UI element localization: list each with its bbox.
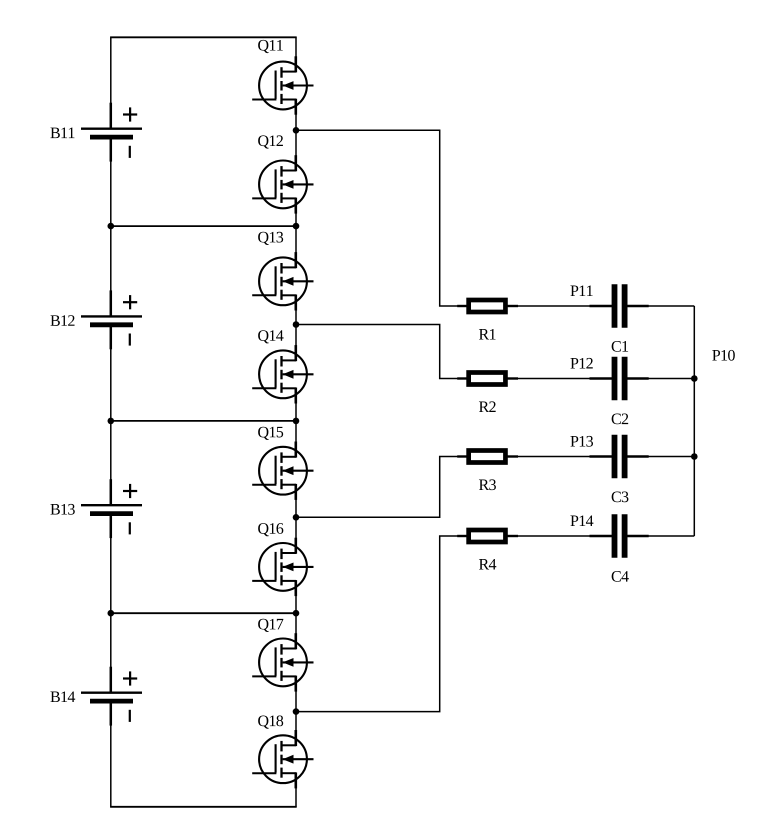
resistor R2 [457,373,518,385]
transistor Q18 [252,730,313,788]
wire: left rail segment 1 [110,37,112,128]
junction node P13 on chain [293,514,300,521]
wire: transistor chain segment 4 [295,295,297,360]
wire: transistor chain segment 5 [295,388,297,456]
label Q15 [258,427,283,440]
transistor Q15 [252,442,313,500]
battery B11 [81,103,142,162]
label P11 [570,285,592,296]
wire: C4 to bus P10 [649,535,695,537]
label Q14 [258,330,283,343]
transistor Q16 [252,538,313,596]
junction bus / C3 [691,453,698,460]
wire: transistor chain segment 3 [295,198,297,267]
wire: left rail segment 3 [110,325,112,505]
transistor Q11 [252,56,313,114]
label Q13 [258,232,283,245]
wire: rail between B13 and B14 [110,612,297,614]
transistor Q13 [252,252,313,310]
wire: node P14 to resistor R4 [296,536,458,712]
label R1 [479,329,496,340]
resistor R4 [457,530,518,542]
label B11 [50,128,74,139]
wire: transistor chain segment 7 [295,581,297,649]
label R4 [479,559,496,570]
transistor Q12 [252,155,313,213]
wire: R1 to C1 [518,305,591,307]
label C2 [612,414,629,425]
label P14 [570,515,593,526]
wire: transistor chain segment 9 [295,773,297,807]
transistor Q17 [252,633,313,691]
resistor R3 [457,451,518,463]
wire: transistor chain segment 6 [295,485,297,553]
wire: C3 to bus P10 [649,456,695,458]
junction node P11 on chain [293,127,300,134]
wire: R2 to C2 [518,378,591,380]
junction left rail / B13-B14 [108,610,115,617]
capacitor C3 [590,435,649,478]
wire: R4 to C4 [518,535,591,537]
junction node P12 on chain [293,321,300,328]
resistor R1 [457,300,518,312]
junction chain / Q12-Q13 [293,223,300,230]
wire: transistor chain segment 8 [295,676,297,745]
label B13 [50,504,74,515]
label Q12 [258,135,283,148]
label P10 [712,350,735,361]
junction chain / Q14-Q15 [293,418,300,425]
capacitor C4 [590,514,649,557]
label Q16 [258,523,283,536]
wire: right bus P10 [693,306,695,536]
wire: bottom rail [110,806,297,808]
wire: C1 to bus P10 [649,305,695,307]
transistor Q14 [252,345,313,403]
label R3 [479,479,496,490]
label P12 [570,358,592,369]
battery B14 [81,667,142,726]
label Q11 [258,40,283,53]
wire: top rail [110,36,297,38]
junction chain / Q16-Q17 [293,610,300,617]
junction left rail / B11-B12 [108,223,115,230]
label Q18 [258,715,283,728]
wire: rail between B12 and B13 [110,420,297,422]
junction left rail / B12-B13 [108,418,115,425]
wire: rail between B11 and B12 [110,225,297,227]
wire: left rail segment 4 [110,514,112,693]
label B14 [50,691,75,702]
capacitor C1 [590,284,649,327]
junction node P14 on chain [293,708,300,715]
junction bus / C2 [691,375,698,382]
label B12 [50,315,74,326]
label C4 [612,571,629,582]
battery B12 [81,290,142,349]
label R2 [479,401,496,412]
wire: R3 to C3 [518,456,591,458]
wire: node P11 to resistor R1 [296,130,458,306]
label C1 [612,341,628,352]
battery B13 [81,479,142,538]
capacitor C2 [590,357,649,400]
label Q17 [258,619,283,632]
label C3 [612,492,629,503]
wire: C2 to bus P10 [649,378,695,380]
wire: transistor chain segment 1 [295,37,297,71]
wire: node P13 to resistor R3 [296,457,458,518]
label P13 [570,436,593,447]
wire: left rail segment 5 [110,701,112,807]
wire: transistor chain segment 2 [295,100,297,171]
wire: left rail segment 2 [110,137,112,316]
wire: node P12 to resistor R2 [296,325,458,379]
